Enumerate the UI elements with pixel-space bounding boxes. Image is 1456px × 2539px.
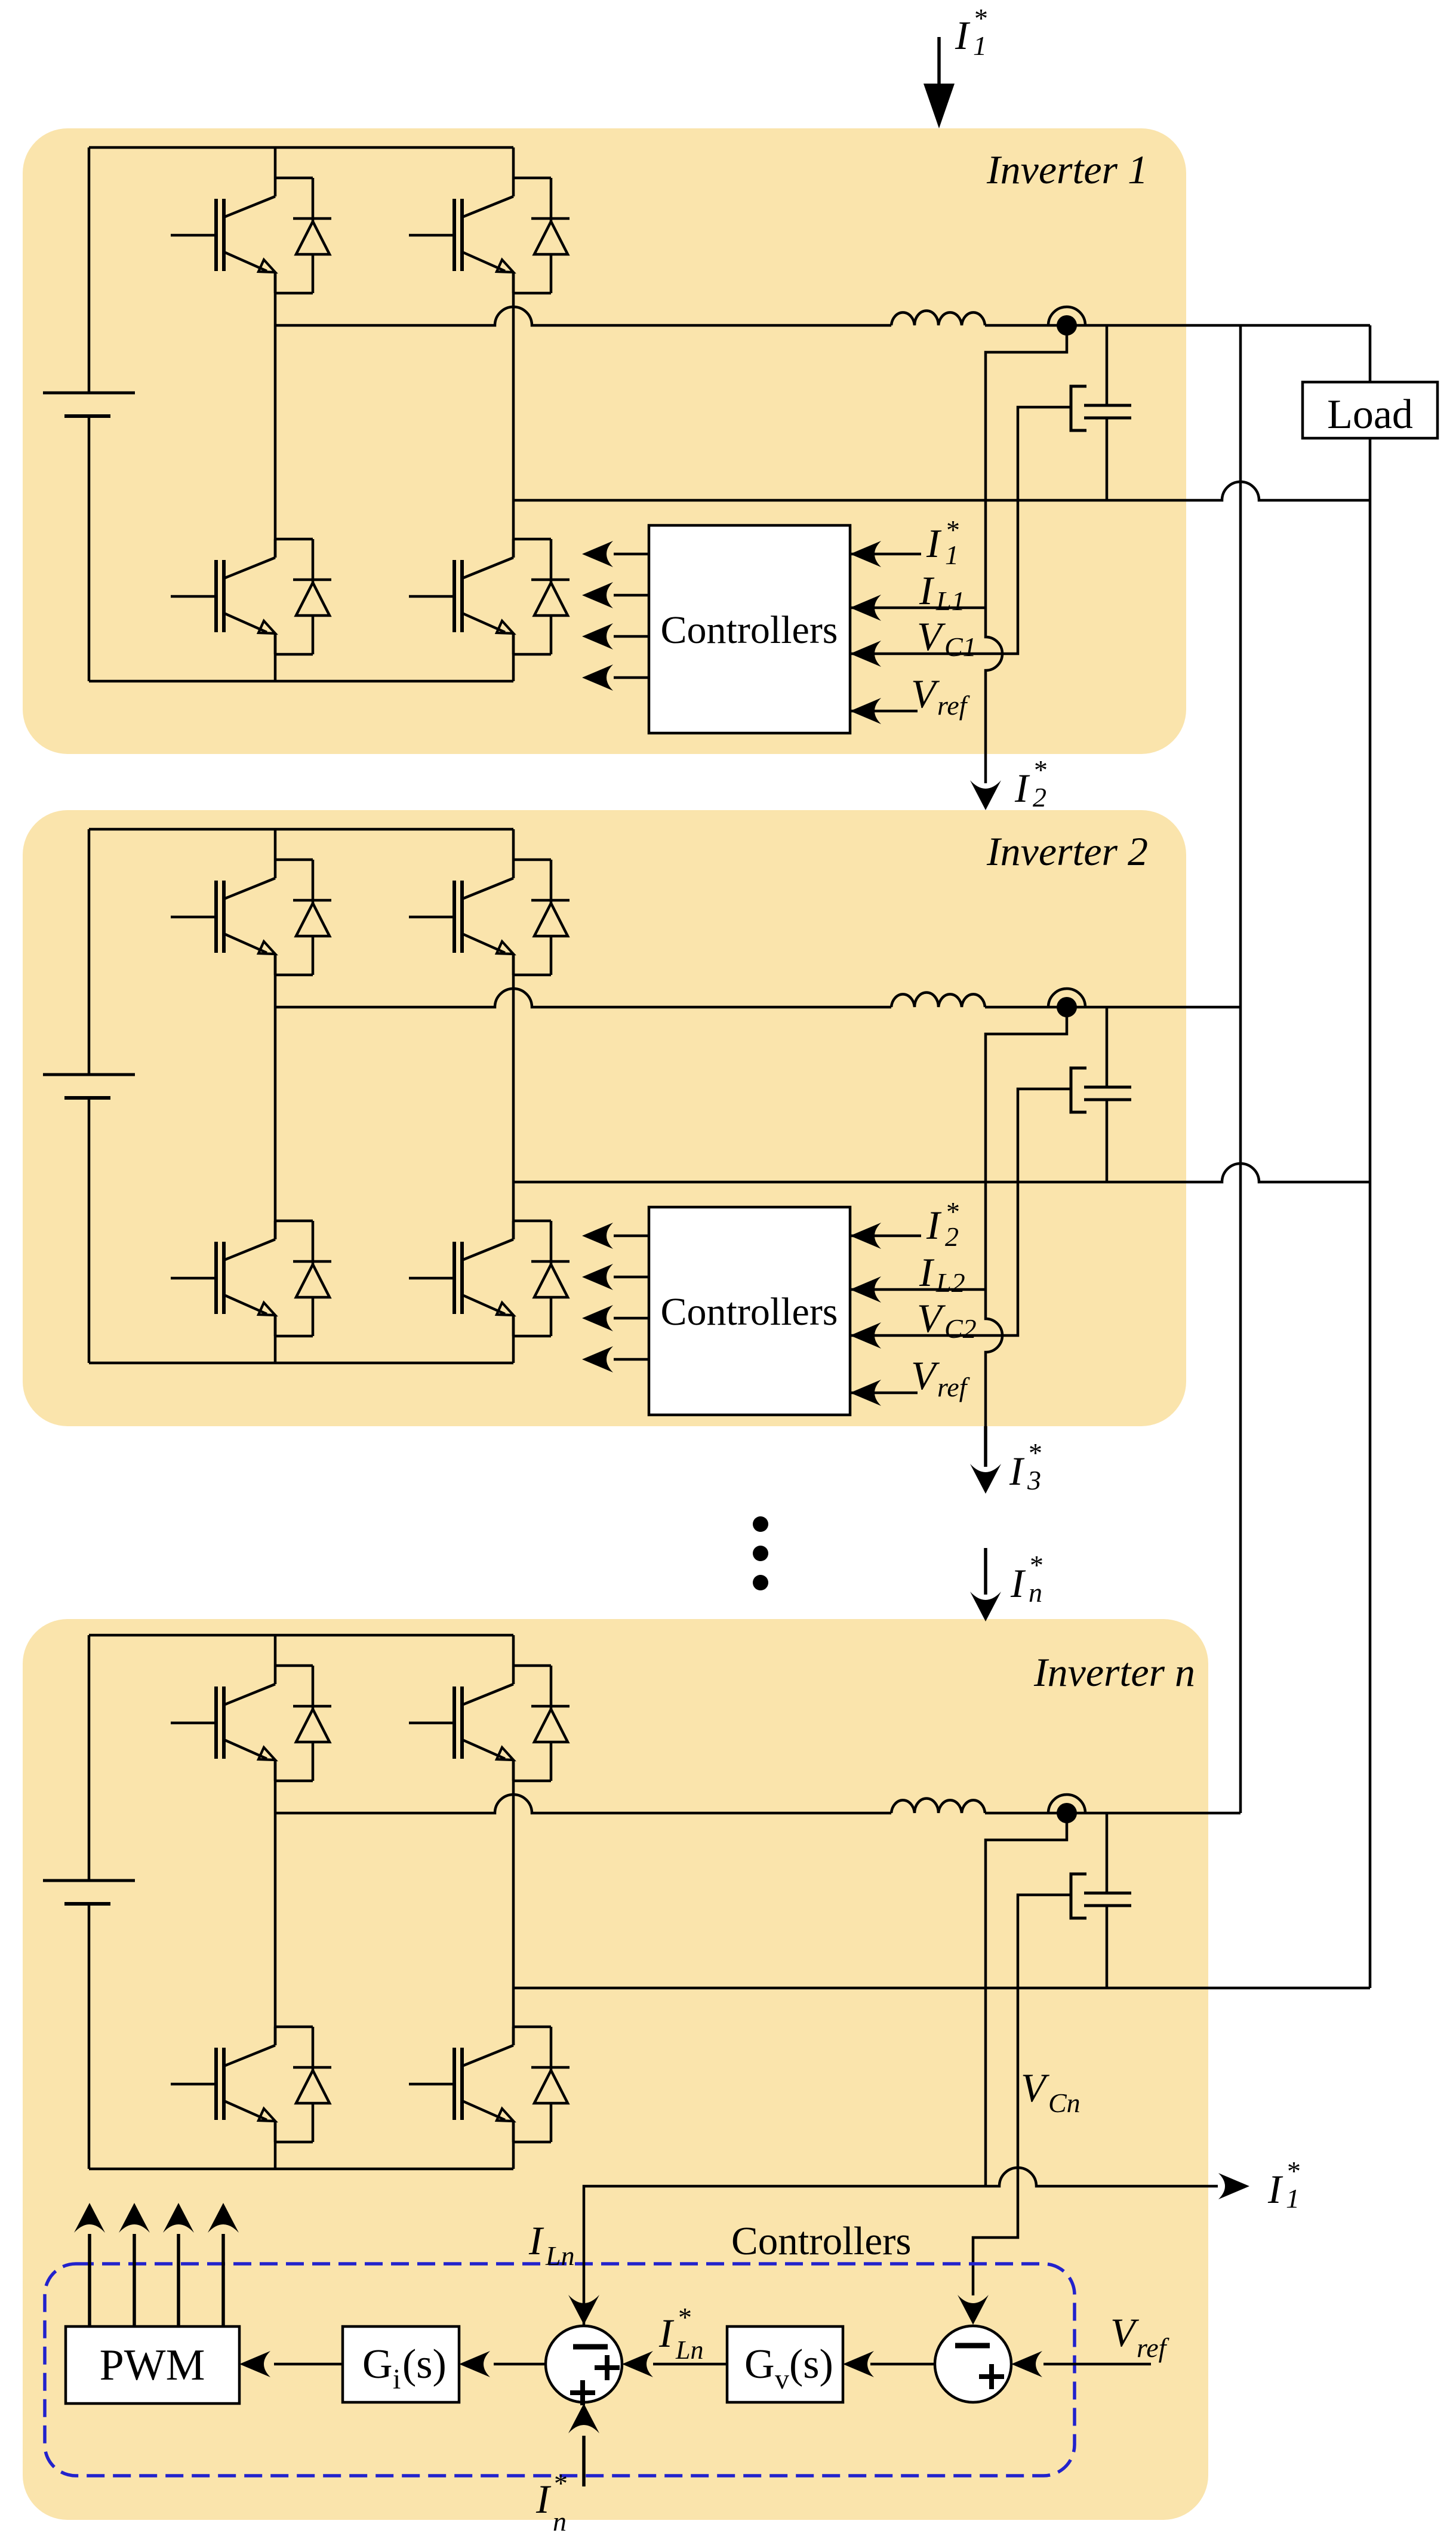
svg-text:Inverter 2: Inverter 2 — [986, 829, 1148, 874]
wire: right leg inverter n — [512, 1635, 515, 2169]
wire: right leg inverter 2 — [512, 829, 515, 1363]
svg-text:2: 2 — [945, 1221, 959, 1252]
wire: load bus upper — [1369, 325, 1372, 382]
svg-text:G: G — [362, 2341, 393, 2387]
controllers box inverter 2 — [649, 1207, 850, 1415]
label: ILn* reference — [658, 2302, 703, 2365]
wire: top DC bus inverter n — [89, 1634, 513, 1637]
battery B2 (DC source) — [43, 1075, 135, 1098]
label: Gv(s) — [744, 2341, 833, 2395]
wire: output line to load bus inverter 1 — [985, 324, 1370, 327]
label: I2* input — [926, 1196, 960, 1252]
wire: load bus lower (return) — [1369, 438, 1372, 1988]
svg-text:L2: L2 — [935, 1267, 965, 1298]
input arrow IL2 into controllers — [850, 1276, 986, 1303]
svg-text:I: I — [1267, 2166, 1283, 2212]
arrow: I3* reference out of inverter 2 — [970, 1426, 1001, 1494]
svg-text:I: I — [1010, 1561, 1026, 1606]
svg-text:I: I — [926, 1202, 942, 1248]
wire: left DC rail inverter 1 — [88, 147, 91, 681]
svg-text:G: G — [744, 2341, 775, 2387]
wire: voltage sense tap VC2 — [850, 1089, 1071, 1335]
svg-text:I: I — [658, 2310, 675, 2356]
wire: output line inverter n corner up to link bus — [985, 1812, 1240, 1815]
svg-text:*: * — [1029, 1438, 1042, 1468]
node: current sensor dot inverter 1 — [1048, 307, 1085, 336]
svg-text:Inverter n: Inverter n — [1033, 1649, 1195, 1695]
wire: top DC bus inverter 1 — [89, 146, 513, 149]
svg-text:n: n — [1029, 1577, 1042, 1608]
svg-text:C2: C2 — [944, 1313, 977, 1344]
svg-text:1: 1 — [973, 30, 987, 61]
label: Gi(s) — [362, 2341, 447, 2395]
svg-text:Ln: Ln — [545, 2241, 575, 2271]
svg-text:I: I — [1014, 765, 1030, 811]
wire: phase output inverter 2 — [275, 989, 891, 1007]
inductor L1 (output filter) — [891, 311, 985, 325]
svg-text:I: I — [919, 568, 935, 613]
svg-text:*: * — [1034, 755, 1048, 785]
voltage sense bracket VC2 — [1071, 1068, 1086, 1112]
diode antiparallel top-right inverter 2 — [531, 860, 570, 975]
wire: return line inverter 1 — [513, 482, 1370, 500]
panel: Inverter 1 highlight region — [23, 128, 1186, 754]
svg-text:I: I — [1009, 1448, 1025, 1494]
wire: output line inverter 2 to link bus — [985, 1006, 1240, 1009]
gate drive arrow 2 inverter 2 — [582, 1264, 649, 1290]
node: current sensor dot inverter n — [1048, 1795, 1085, 1823]
wire: current sense tap inverter n (ILn) — [986, 1813, 1067, 2186]
label: Vref inverter 2 — [911, 1353, 971, 1402]
label: IL2 — [919, 1250, 965, 1298]
diode antiparallel bottom-right inverter n — [531, 2027, 570, 2142]
svg-text:(s): (s) — [402, 2341, 447, 2387]
svg-text:Controllers: Controllers — [661, 608, 838, 652]
sign minus (voltage junction) — [955, 2343, 990, 2349]
gate drive arrow 2 inverter 1 — [582, 582, 649, 608]
arrowhead: VC2 into controllers — [850, 1322, 881, 1349]
wire: top DC bus inverter 2 — [89, 828, 513, 831]
svg-text:*: * — [678, 2302, 692, 2332]
transistor IGBT bottom-left inverter 2 — [171, 1221, 313, 1336]
wire: current sense tap inverter 2 (IL2 / I3* feed) — [986, 1007, 1067, 1465]
capacitor C1 (output filter) — [1084, 405, 1131, 418]
svg-text:*: * — [1030, 1550, 1043, 1580]
transistor IGBT top-left inverter n — [171, 1666, 313, 1781]
label: VC2 — [917, 1295, 977, 1344]
ellipsis dots (more inverters) — [753, 1516, 768, 1590]
controllers box inverter 1 — [649, 525, 850, 733]
wire: left DC rail inverter n — [88, 1635, 91, 2169]
box Gi(s) — [343, 2326, 459, 2402]
svg-text:Cn: Cn — [1048, 2088, 1081, 2118]
wire: left leg inverter 1 — [274, 147, 277, 681]
svg-text:C1: C1 — [944, 632, 977, 662]
input arrow Vref into controllers inverter 2 — [850, 1380, 918, 1406]
svg-text:n: n — [553, 2506, 567, 2537]
capacitor C2 (output filter) — [1084, 1087, 1131, 1100]
label: I1* output — [1267, 2156, 1301, 2214]
sign plus right (current junction) — [595, 2355, 620, 2380]
arrow: voltage junction output into Gv(s) — [843, 2351, 935, 2377]
input arrow I2* reference into controllers — [850, 1223, 921, 1249]
label: ILn — [528, 2218, 575, 2271]
gate drive arrow 3 inverter 1 — [582, 623, 649, 650]
svg-text:Ln: Ln — [675, 2335, 703, 2365]
svg-text:ref: ref — [1137, 2332, 1170, 2363]
svg-text:ref: ref — [937, 690, 971, 721]
arrowhead: VCn into voltage summing junction — [958, 2295, 989, 2325]
wire: bottom DC bus inverter n — [89, 2168, 513, 2171]
input arrow I1* reference into controllers — [850, 541, 921, 567]
arrow: I2* reference from inverter 1 into inverter 2 (arrowhead) — [970, 780, 1001, 810]
label: I1* top — [955, 3, 988, 61]
svg-text:*: * — [554, 2468, 568, 2498]
svg-text:ref: ref — [937, 1372, 971, 1402]
arrow: In* reference into inverter n — [970, 1548, 1001, 1621]
svg-text:Inverter 1: Inverter 1 — [986, 147, 1148, 192]
wire: bottom DC bus inverter 2 — [89, 1362, 513, 1365]
wire: phase output inverter 1 — [275, 307, 891, 325]
sign plus bottom (current junction) — [570, 2380, 595, 2405]
diode antiparallel top-left inverter n — [293, 1666, 331, 1781]
arrowhead: ILn into current summing junction — [568, 2295, 599, 2325]
arrow: In* into current summing junction — [568, 2403, 599, 2486]
sign minus (current junction) — [573, 2344, 608, 2350]
wire: capacitor branch inverter 2 — [1106, 1007, 1109, 1182]
svg-text:1: 1 — [945, 540, 959, 570]
voltage sense bracket VCn — [1071, 1874, 1086, 1918]
diode antiparallel top-right inverter n — [531, 1666, 570, 1781]
dashed controllers boundary — [45, 2264, 1075, 2476]
diode antiparallel bottom-left inverter 1 — [293, 539, 331, 654]
wire: capacitor branch inverter 1 — [1106, 325, 1109, 500]
wire: left DC rail inverter 2 — [88, 829, 91, 1363]
gate drive arrow 1 from PWM — [74, 2203, 105, 2326]
svg-text:Controllers: Controllers — [661, 1290, 838, 1334]
summing junction current loop — [546, 2326, 622, 2402]
label: Vref bottom — [1110, 2310, 1170, 2363]
svg-text:PWM: PWM — [100, 2341, 205, 2390]
arrow: ILn* from Gv(s) into current junction — [622, 2351, 727, 2377]
gate drive arrow 1 inverter 2 — [582, 1223, 649, 1249]
svg-text:I: I — [955, 13, 971, 58]
svg-text:i: i — [393, 2363, 401, 2395]
transistor IGBT top-left inverter 2 — [171, 860, 313, 975]
battery B1 (DC source) — [43, 393, 135, 416]
svg-text:*: * — [974, 3, 988, 33]
arrowhead: I1* output to next stage — [1218, 2173, 1249, 2199]
diode antiparallel bottom-left inverter n — [293, 2027, 331, 2142]
input arrow Vref into controllers inverter 1 — [850, 698, 918, 724]
label: I1* input — [926, 515, 960, 570]
input arrow IL1 into controllers — [850, 595, 986, 621]
transistor IGBT bottom-left inverter n — [171, 2027, 313, 2142]
svg-text:1: 1 — [1286, 2183, 1300, 2214]
transistor IGBT top-right inverter n — [409, 1666, 551, 1781]
gate drive arrow 4 inverter 2 — [582, 1346, 649, 1372]
svg-text:I: I — [528, 2218, 544, 2263]
wire: voltage sense tap VC1 — [850, 407, 1071, 654]
label: Vref inverter 1 — [911, 671, 971, 721]
svg-text:Load: Load — [1327, 392, 1413, 438]
gate drive arrow 4 inverter 1 — [582, 664, 649, 691]
wire: output link bus joining inverter outputs — [1239, 325, 1242, 1813]
gate drive arrow 2 from PWM — [119, 2203, 150, 2326]
box Gv(s) — [727, 2326, 843, 2402]
wire: voltage sense tap VCn — [973, 1895, 1071, 2295]
wire: capacitor branch inverter n — [1106, 1813, 1109, 1988]
transistor IGBT top-right inverter 2 — [409, 860, 551, 975]
svg-text:v: v — [775, 2363, 789, 2395]
transistor IGBT top-left inverter 1 — [171, 178, 313, 293]
arrow: Gi(s) output into PWM — [239, 2351, 343, 2377]
wire: current sense tap inverter 1 (IL1 / I2* feed) — [986, 325, 1067, 783]
arrow: Vref into voltage summing junction — [1011, 2351, 1151, 2377]
label: IL1 — [919, 568, 965, 616]
voltage sense bracket VC1 — [1071, 386, 1086, 430]
gate drive arrow 3 from PWM — [163, 2203, 194, 2326]
diode antiparallel bottom-right inverter 2 — [531, 1221, 570, 1336]
label: I2* — [1014, 755, 1048, 813]
node: current sensor dot inverter 2 — [1048, 989, 1085, 1017]
svg-text:(s): (s) — [789, 2341, 833, 2387]
wire: phase output inverter n — [275, 1795, 891, 1813]
sign plus (voltage junction) — [979, 2364, 1004, 2389]
box PWM — [66, 2326, 239, 2403]
label: VCn — [1021, 2065, 1081, 2118]
diode antiparallel top-left inverter 2 — [293, 860, 331, 975]
inductor Ln (output filter) — [891, 1799, 985, 1813]
wire: bottom DC bus inverter 1 — [89, 680, 513, 683]
gate drive arrow 1 inverter 1 — [582, 541, 649, 567]
capacitor Cn (output filter) — [1084, 1893, 1131, 1906]
arrowhead: VC1 into controllers — [850, 641, 881, 667]
gate drive arrow 4 from PWM — [208, 2203, 239, 2326]
svg-text:3: 3 — [1027, 1465, 1041, 1495]
svg-text:Controllers: Controllers — [731, 2219, 911, 2263]
label: In* between panels — [1010, 1550, 1043, 1608]
label: In* bottom — [535, 2468, 568, 2537]
transistor IGBT bottom-left inverter 1 — [171, 539, 313, 654]
panel: Inverter n highlight region — [23, 1619, 1208, 2520]
wire: ILn line to current summing junction and I1* out — [584, 2168, 1218, 2364]
transistor IGBT bottom-right inverter 1 — [409, 539, 551, 654]
wire: right leg inverter 1 — [512, 147, 515, 681]
svg-text:2: 2 — [1033, 782, 1046, 813]
diode antiparallel top-left inverter 1 — [293, 178, 331, 293]
wire: left leg inverter n — [274, 1635, 277, 2169]
wire: return line inverter 2 — [513, 1164, 1370, 1182]
wire: return line inverter n — [513, 1987, 1370, 1990]
label: I3* — [1009, 1438, 1042, 1495]
transistor IGBT bottom-right inverter 2 — [409, 1221, 551, 1336]
diode antiparallel bottom-right inverter 1 — [531, 539, 570, 654]
arrow: I1* current reference into inverter 1 — [924, 37, 955, 128]
battery Bn (DC source) — [43, 1881, 135, 1904]
label: VC1 — [917, 614, 977, 662]
load box — [1303, 382, 1437, 438]
wire: left leg inverter 2 — [274, 829, 277, 1363]
diode antiparallel bottom-left inverter 2 — [293, 1221, 331, 1336]
gate drive arrow 3 inverter 2 — [582, 1305, 649, 1331]
transistor IGBT bottom-right inverter n — [409, 2027, 551, 2142]
arrow: current junction output into Gi(s) — [459, 2351, 546, 2377]
inductor L2 (output filter) — [891, 993, 985, 1007]
svg-text:I: I — [535, 2476, 552, 2522]
svg-text:L1: L1 — [935, 586, 965, 616]
summing junction voltage loop — [935, 2326, 1011, 2402]
svg-text:*: * — [1287, 2156, 1301, 2186]
svg-text:I: I — [926, 521, 942, 566]
panel: Inverter 2 highlight region — [23, 810, 1186, 1426]
transistor IGBT top-right inverter 1 — [409, 178, 551, 293]
svg-text:I: I — [919, 1250, 935, 1295]
diode antiparallel top-right inverter 1 — [531, 178, 570, 293]
